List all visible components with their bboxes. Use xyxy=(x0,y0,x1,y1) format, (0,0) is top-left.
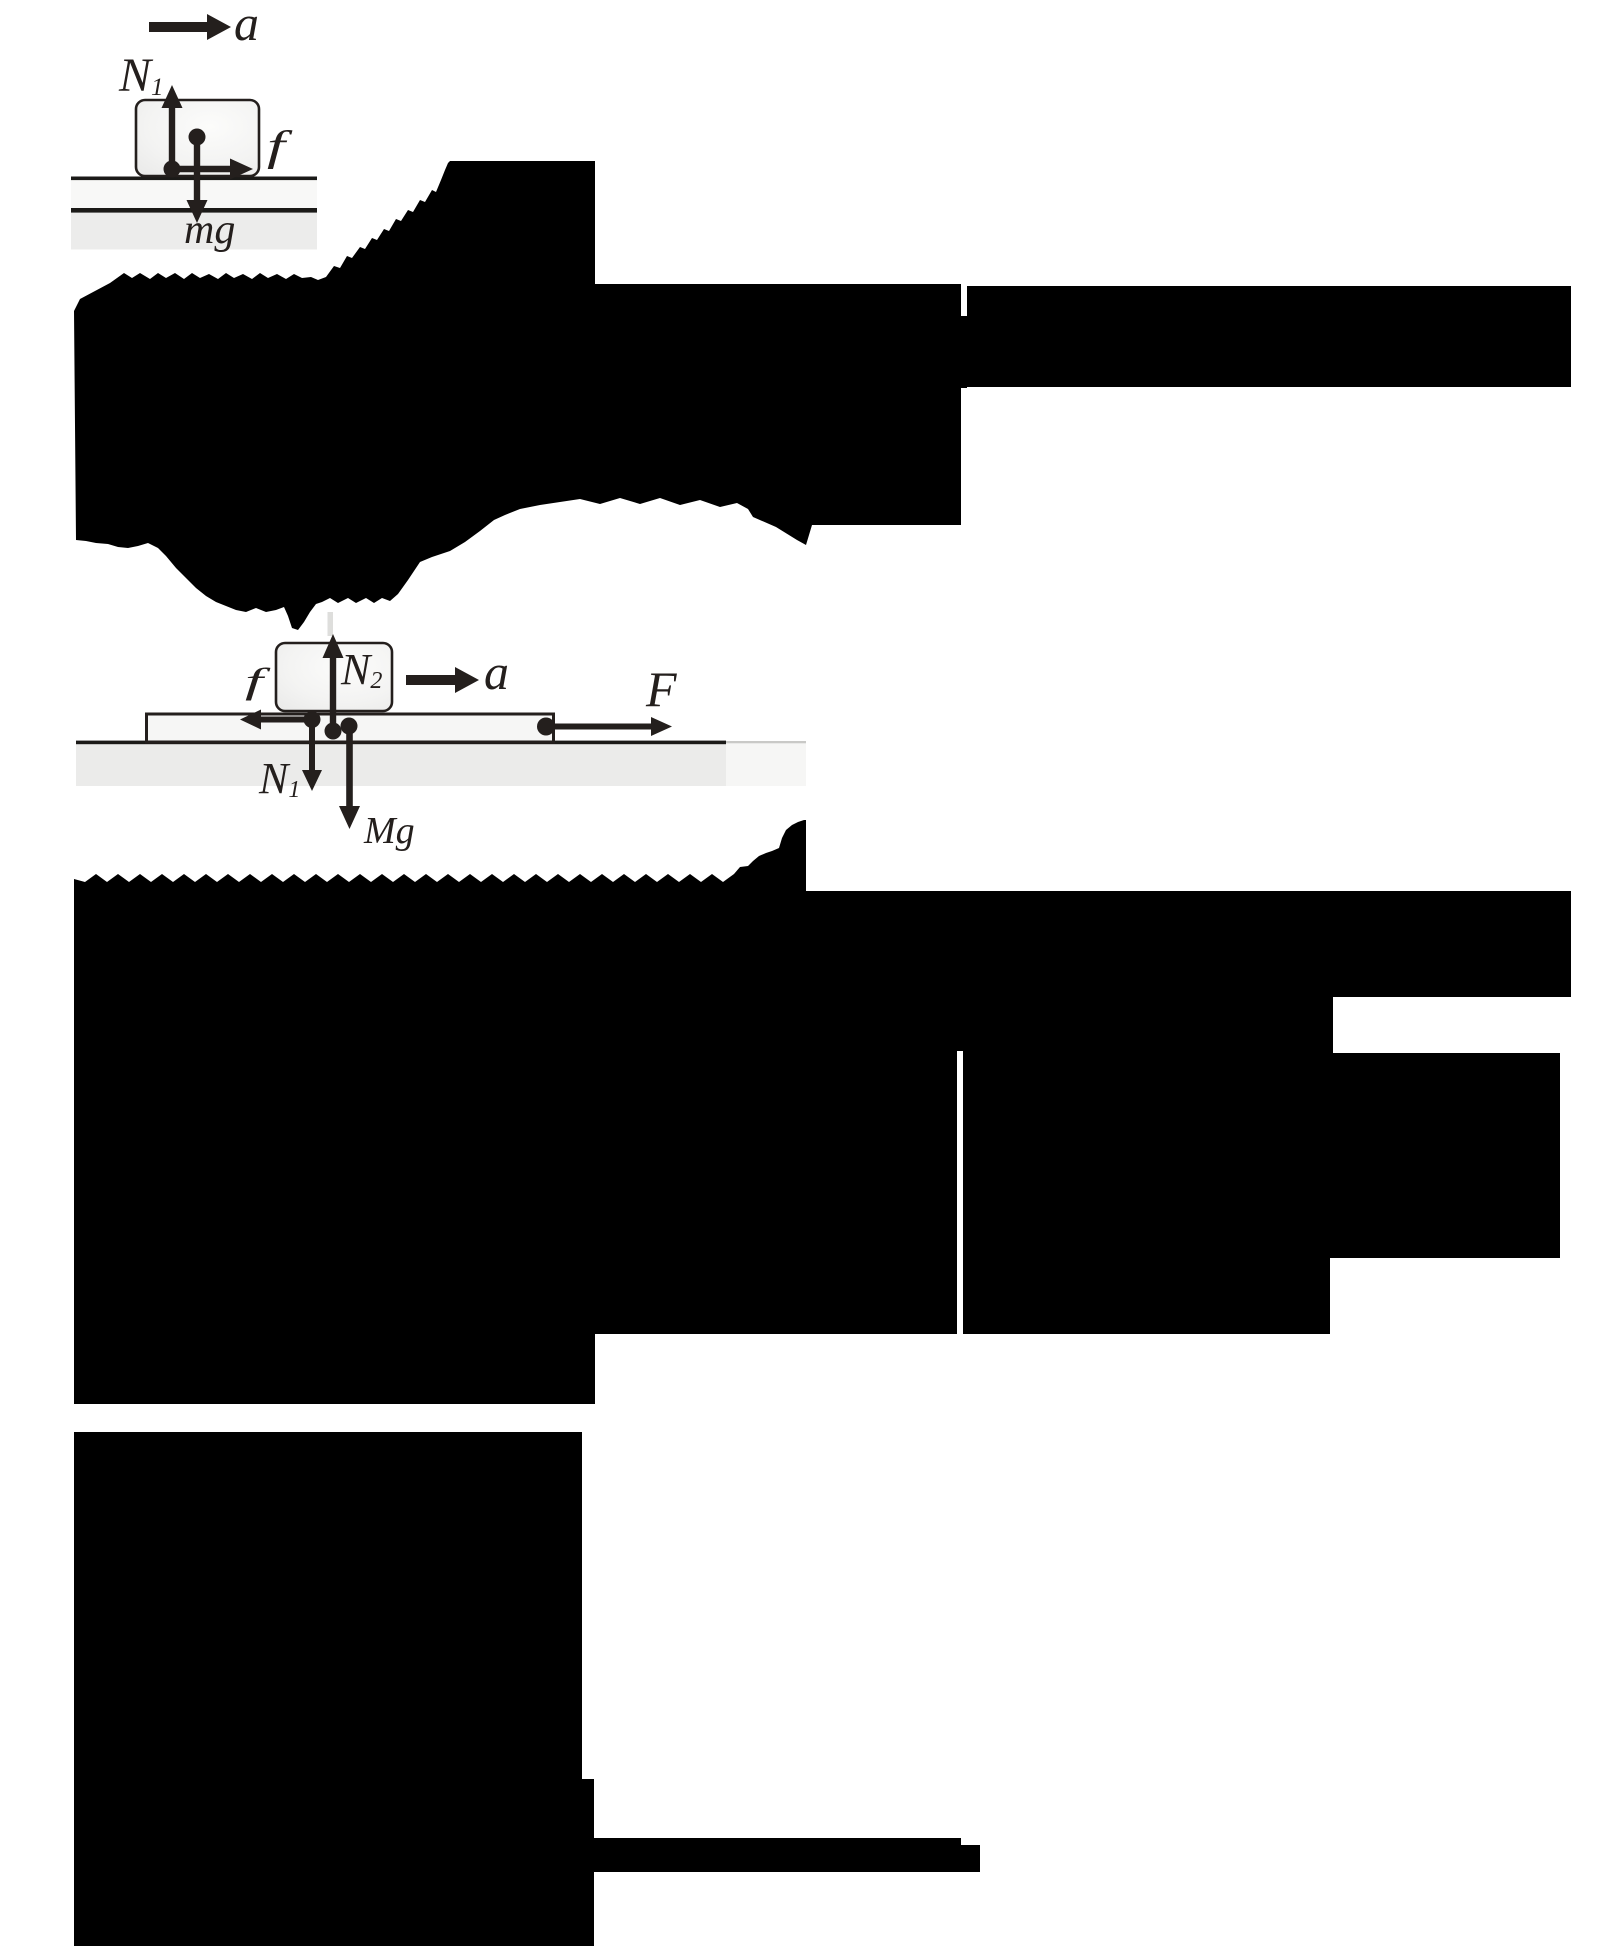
friction arrow f on plank (diagram 2) xyxy=(240,710,312,730)
plank M (diagram 2) xyxy=(147,714,554,742)
reaction arrow N1 downward (diagram 2) xyxy=(302,720,322,791)
friction arrow f (diagram 1) xyxy=(172,159,253,180)
svg-text:a: a xyxy=(234,0,259,51)
redacted text block C (main solution body) xyxy=(74,820,1571,1404)
contact dot f/N1 (diagram 2) xyxy=(304,711,321,728)
svg-text:F: F xyxy=(645,661,677,717)
normal force arrow N1 (diagram 1) xyxy=(162,85,183,171)
acceleration arrow a (diagram 2) xyxy=(406,667,479,693)
dot at F (diagram 2) xyxy=(537,718,555,736)
svg-text:mg: mg xyxy=(184,207,235,253)
dot at N2 base (diagram 2) xyxy=(325,723,342,740)
redacted text block A right connector xyxy=(961,316,967,388)
block m (diagram 1) xyxy=(136,100,259,176)
block on plank (diagram 2) xyxy=(276,643,392,711)
redacted text block D (lower-left paragraph) xyxy=(74,1432,980,1946)
applied force arrow F (diagram 2) xyxy=(546,717,672,736)
faint guide line above N2 (diagram 2) xyxy=(328,612,334,636)
center dot Mg (diagram 2) xyxy=(341,718,358,735)
redacted text block A (solution paragraph) xyxy=(74,161,961,630)
svg-text:Mg: Mg xyxy=(363,810,415,852)
svg-text:a: a xyxy=(484,644,509,700)
center-of-mass dot (diagram 1) xyxy=(189,129,206,146)
ground surface (diagram 1) xyxy=(71,180,317,208)
weight arrow Mg (diagram 2) xyxy=(339,726,360,829)
redacted text block B (right column paragraph) xyxy=(967,286,1571,387)
weight arrow mg (diagram 1) xyxy=(187,137,208,223)
contact dot (diagram 1) xyxy=(164,161,181,178)
normal force arrow N2 (diagram 2) xyxy=(323,634,344,731)
acceleration arrow a (diagram 1) xyxy=(149,14,231,40)
ground surface (diagram 2) xyxy=(76,744,726,786)
